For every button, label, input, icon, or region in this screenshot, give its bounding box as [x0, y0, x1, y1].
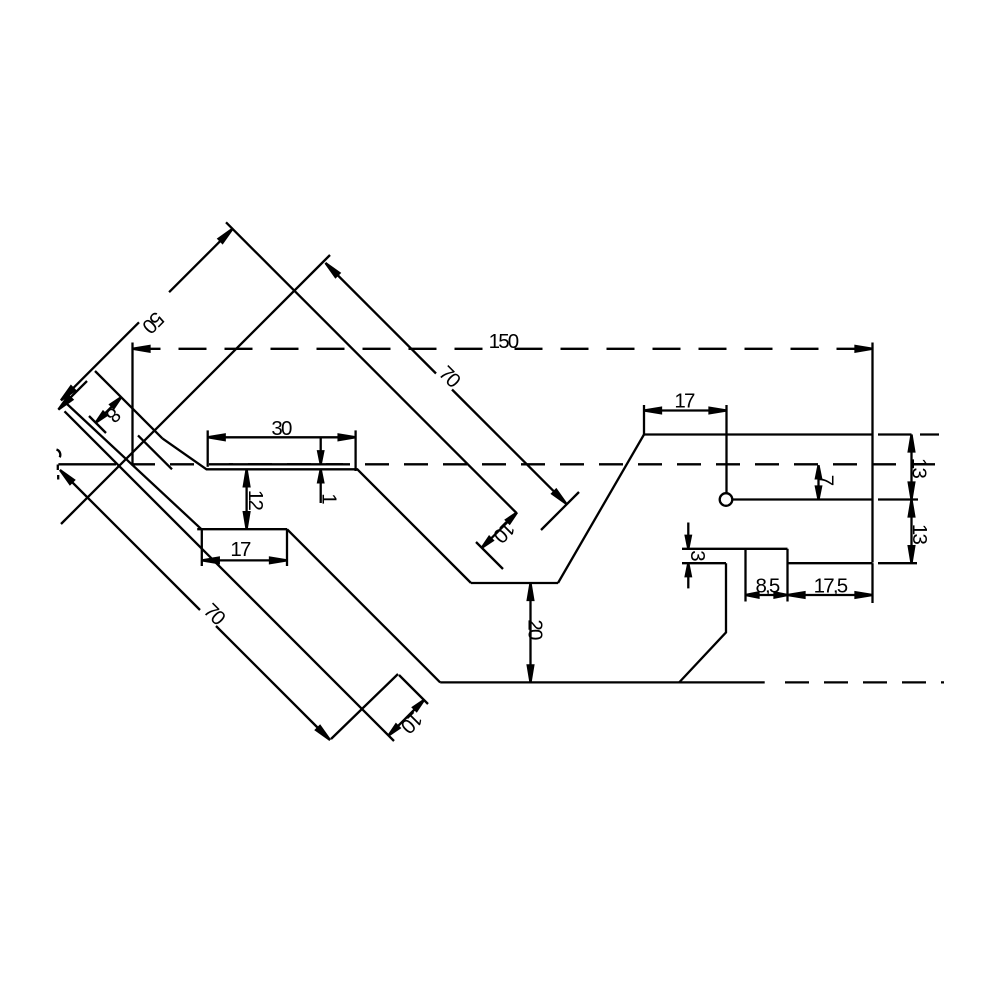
- 17-rect right extension: [286, 529, 288, 566]
- profile: 59-degree wall: [558, 435, 644, 584]
- left edge small marks: [57, 450, 61, 458]
- dimension 7: [817, 465, 819, 499]
- dimension 70 lower: [60, 470, 200, 610]
- profile: bottom plate bottom left: [682, 562, 726, 564]
- svg-text:30: 30: [271, 417, 292, 440]
- dimension 1: [320, 438, 322, 464]
- svg-text:150: 150: [489, 330, 519, 353]
- profile: arm top surface: [95, 371, 162, 438]
- 17-rect left extension: [201, 529, 203, 566]
- profile: V bottom: [471, 582, 558, 584]
- svg-text:17,5: 17,5: [814, 575, 848, 598]
- dimension 8,5: [746, 594, 788, 596]
- profile: bottom plate top: [682, 548, 788, 550]
- dimension 13 lower: [878, 562, 917, 564]
- profile: slot end circle: [720, 493, 733, 506]
- profile: bottom tab: [679, 563, 726, 682]
- svg-text:1: 1: [317, 493, 340, 504]
- roof sheet upper line: [67, 404, 201, 529]
- svg-text:3: 3: [686, 550, 709, 561]
- dimension 13 upper: [878, 433, 912, 435]
- dimension 17 left: [202, 559, 287, 561]
- 70-dim upper extension line: [61, 255, 330, 524]
- svg-text:20: 20: [523, 619, 546, 640]
- centerline CL2: [440, 681, 765, 683]
- dimension 70 upper: [326, 263, 437, 374]
- extra arrow below 50-dim arrow: [58, 381, 87, 410]
- svg-text:17: 17: [230, 538, 251, 561]
- dimension 50: [169, 229, 232, 292]
- profile: 17-rect top edge: [197, 528, 287, 530]
- extension at 70-upper far end: [541, 492, 579, 530]
- profile: vertical slit and 17-dim extension: [725, 405, 727, 493]
- profile: slot line: [733, 498, 873, 500]
- profile: bottom plate bottom right: [788, 562, 873, 564]
- dimension 20: [529, 583, 531, 682]
- svg-text:7: 7: [814, 475, 837, 486]
- dimension 10 at V: [476, 542, 503, 569]
- svg-text:12: 12: [244, 490, 267, 511]
- profile: arm bottom surface: [138, 435, 172, 469]
- dimension 30: [207, 430, 209, 466]
- svg-text:17: 17: [674, 390, 695, 413]
- dimension 12: [245, 469, 247, 529]
- profile: 8.5-rect left edge: [744, 549, 746, 602]
- roof sheet lower line: [65, 411, 395, 741]
- centerline CL1: [58, 463, 116, 465]
- dimension 17,5: [871, 563, 873, 603]
- dimension 150: [131, 343, 133, 465]
- dimension 10 lower-left: [399, 675, 428, 704]
- profile: apex, sheet bottom, 45-degree descent: [162, 438, 471, 583]
- profile: right edge and 150-dim extension: [871, 343, 873, 563]
- profile: top surface of right section: [644, 433, 873, 435]
- dimension 3: [687, 523, 689, 549]
- extension at 70-lower far end: [331, 674, 398, 739]
- svg-text:13: 13: [908, 524, 931, 545]
- svg-text:8,5: 8,5: [755, 575, 779, 598]
- dimension 8: [89, 416, 106, 433]
- svg-text:13: 13: [907, 458, 930, 479]
- profile: 45-degree line from 17-rect to lower centerline: [287, 529, 440, 682]
- profile: 8.5-rect right edge: [786, 549, 788, 602]
- dimension 17 right: [643, 405, 645, 435]
- profile: sheet top surface: [229, 463, 343, 465]
- 50-dim extension, also 10-dim edge: [226, 222, 517, 513]
